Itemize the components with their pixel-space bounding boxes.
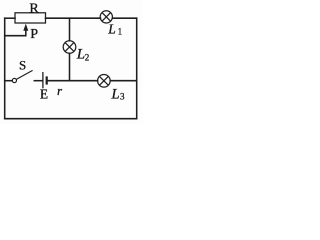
wire top-left (rheostat left terminal to top-left corner) — [5, 17, 15, 19]
lamp L2 branch wire upper — [69, 18, 71, 41]
lamp L2 — [63, 41, 76, 54]
wire right border — [136, 18, 138, 119]
lamp L3 — [98, 75, 111, 88]
svg-text:E: E — [40, 86, 48, 101]
svg-text:L: L — [111, 86, 120, 102]
battery E (short plate) — [46, 76, 48, 84]
switch S — [12, 70, 32, 82]
wire lamp L3 to right border — [110, 80, 137, 82]
wire middle-left (left border to switch) — [5, 80, 13, 82]
battery E (long plate) — [42, 72, 44, 88]
wire switch-to-battery — [34, 80, 42, 82]
svg-text:3: 3 — [120, 91, 125, 101]
svg-text:L: L — [107, 22, 116, 37]
svg-text:1: 1 — [118, 27, 123, 37]
wire left border — [4, 18, 6, 119]
lamp L1 — [100, 11, 112, 23]
lamp L2 branch wire lower — [69, 53, 71, 80]
wire wiper-to-left-border — [5, 30, 26, 36]
svg-text:L: L — [76, 47, 85, 63]
wire battery-to-lamp-L3 — [48, 80, 97, 82]
resistor R (rheostat body) — [15, 13, 46, 23]
wiper P arrow — [23, 24, 28, 31]
svg-text:S: S — [19, 58, 26, 73]
wire top middle (rheostat to lamp L1) — [46, 17, 101, 19]
wire bottom border — [5, 118, 137, 120]
wire top right (lamp L1 to top-right corner) — [113, 17, 137, 19]
svg-text:R: R — [29, 2, 39, 17]
svg-text:2: 2 — [85, 53, 90, 63]
svg-text:P: P — [30, 27, 38, 42]
